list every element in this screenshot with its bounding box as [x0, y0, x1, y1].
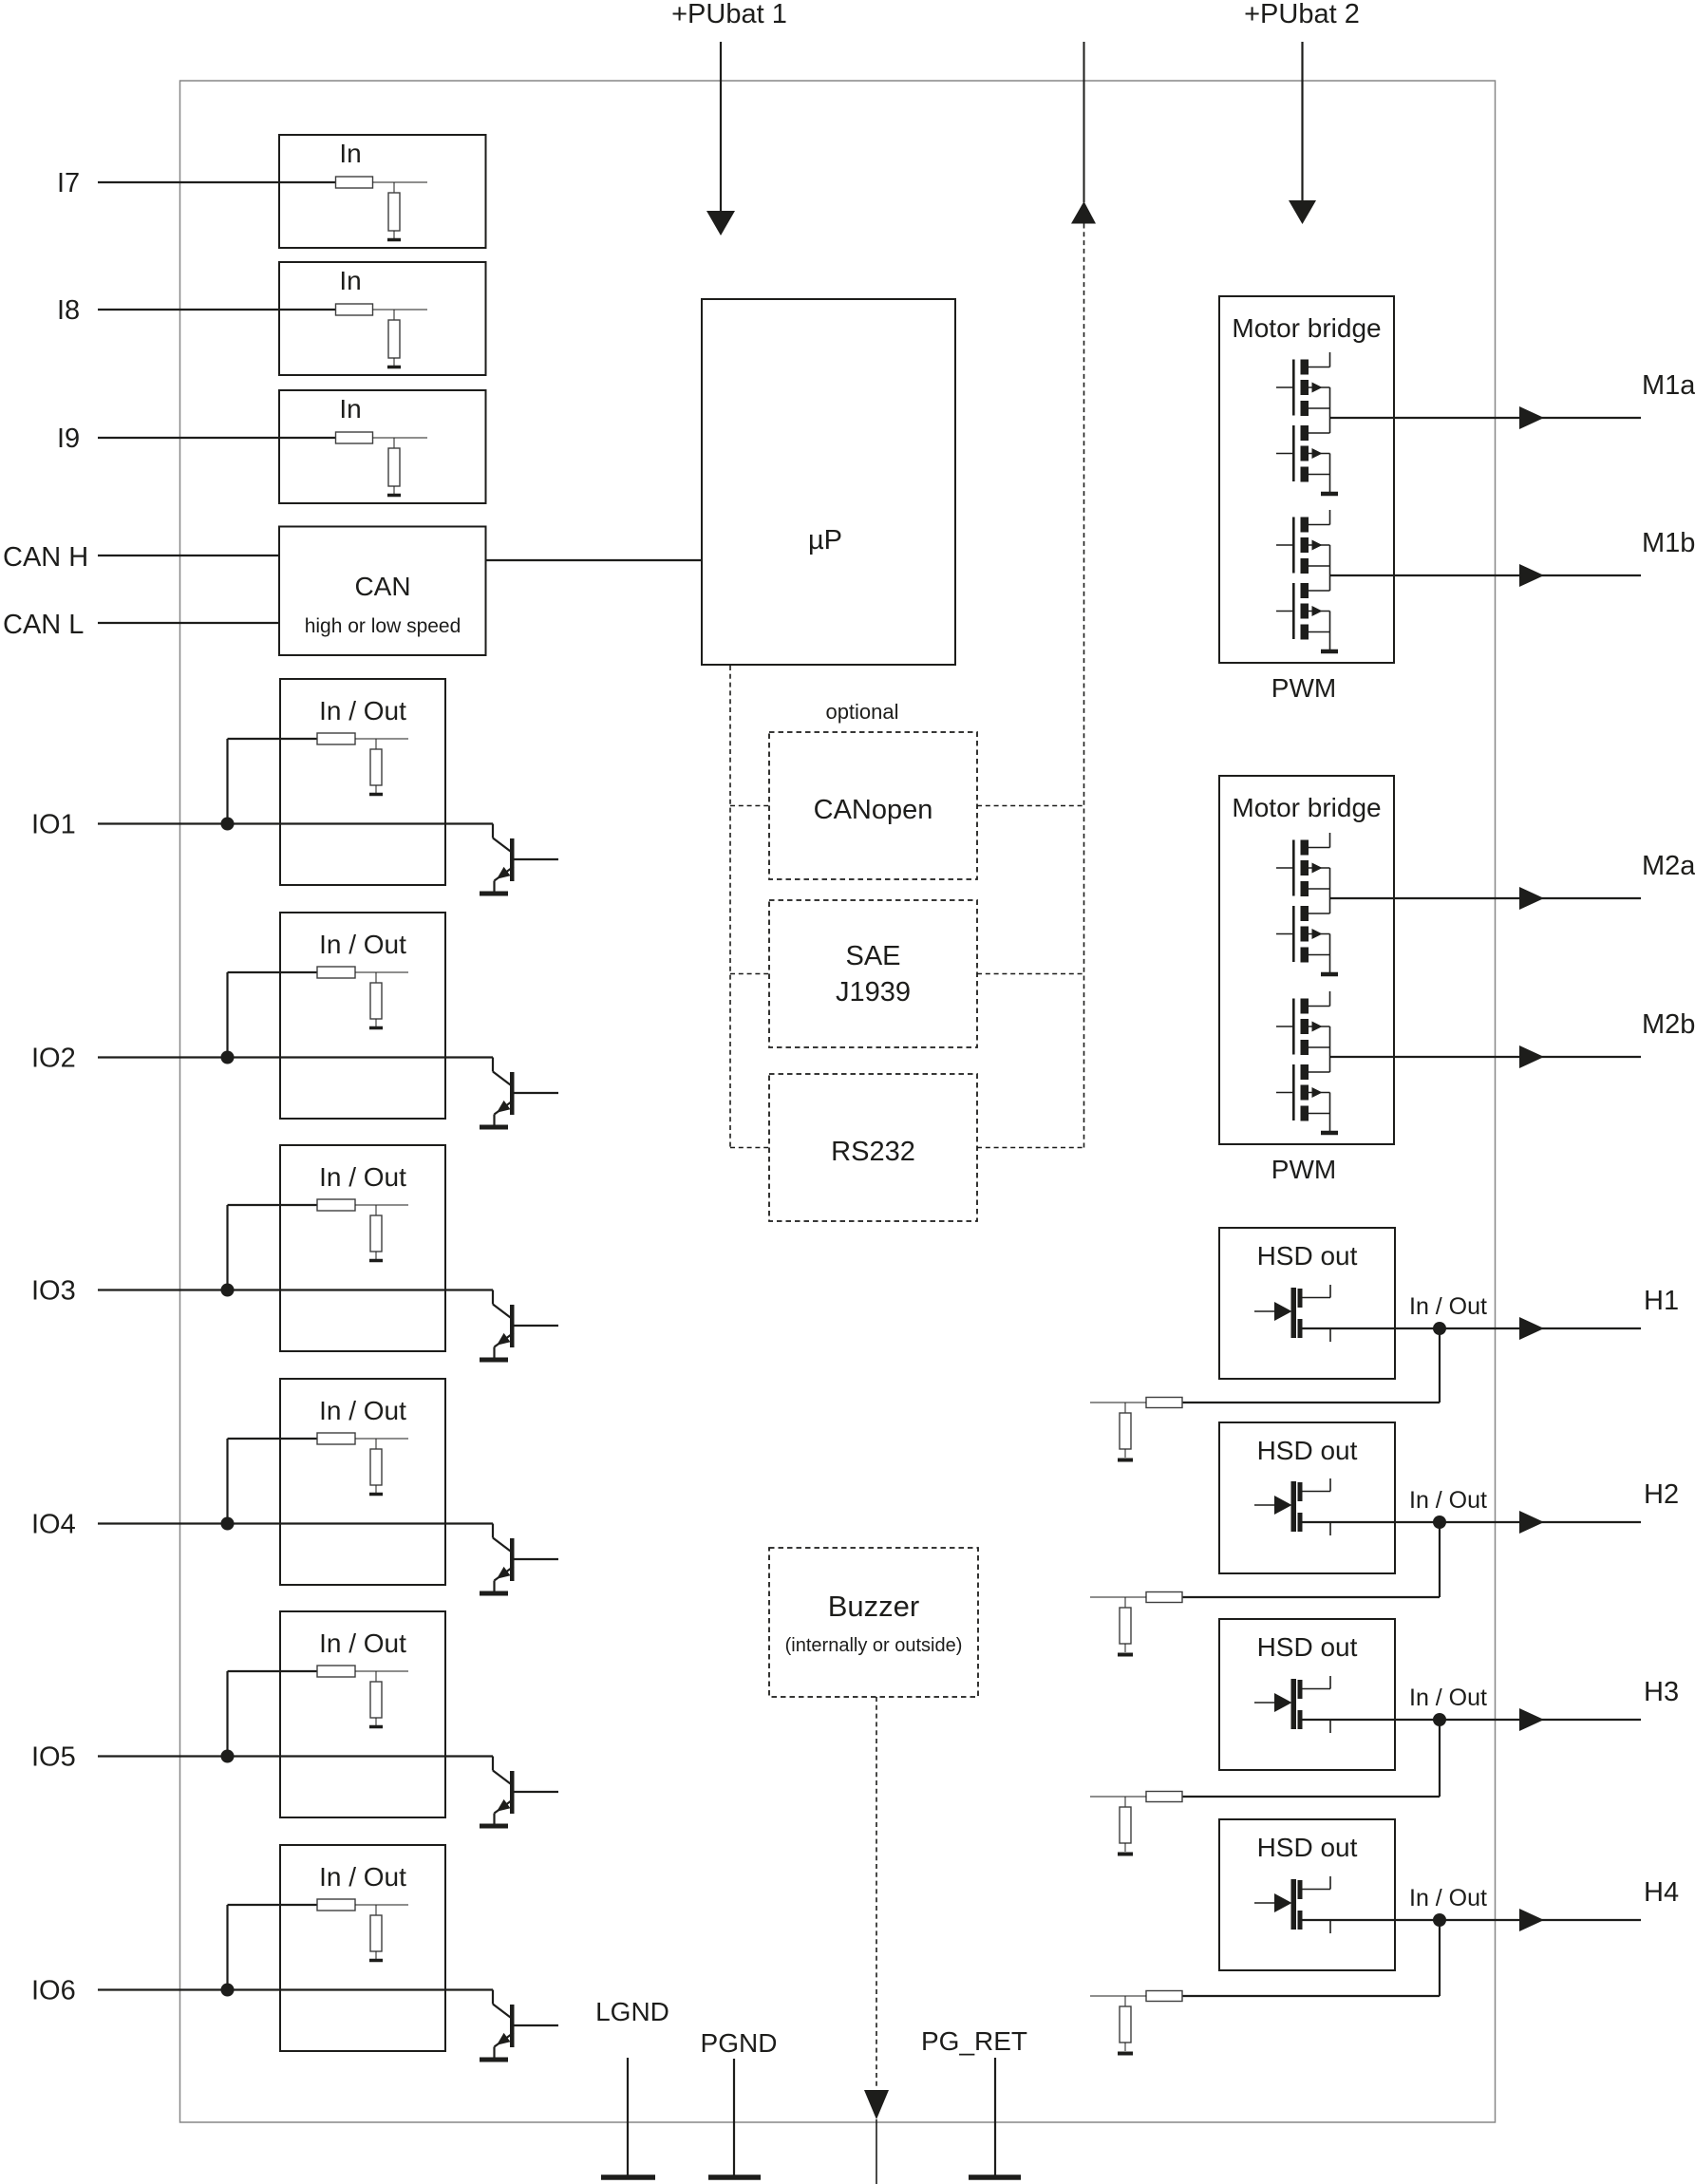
transistor Q1 high-side (N-MOSFET): [1292, 360, 1295, 416]
node M1a phase junction: [1329, 387, 1331, 433]
svg-text:In / Out: In / Out: [319, 930, 406, 959]
block IO6 (In / Out): [280, 1845, 445, 2051]
svg-text:M1b: M1b: [1642, 528, 1695, 558]
wire RS232 right stub (dashed): [977, 1147, 1084, 1149]
ground PGND: [708, 2175, 761, 2180]
svg-text:IO2: IO2: [31, 1044, 76, 1074]
svg-text:CANopen: CANopen: [814, 795, 933, 825]
svg-text:In / Out: In / Out: [319, 1629, 406, 1658]
wire PG_RET: [994, 2058, 996, 2175]
block IO3 (In / Out): [280, 1145, 445, 1351]
resistor pull-down (IO5): [370, 1682, 382, 1718]
wire H3 feedback branch: [1439, 1720, 1441, 1797]
wire CAN H: [98, 555, 279, 556]
resistor pull-down (H3 feedback): [1120, 1807, 1131, 1843]
resistor series (IO3): [317, 1199, 355, 1211]
svg-text:optional: optional: [825, 700, 898, 724]
wire PGND: [733, 2059, 735, 2175]
transistor Q7 high-side (N-MOSFET): [1292, 999, 1295, 1055]
svg-text:IO5: IO5: [31, 1742, 76, 1773]
svg-text:I7: I7: [57, 168, 80, 198]
wire output M1b: [1330, 574, 1642, 576]
block HSD out H3: [1219, 1619, 1395, 1770]
wire output H2: [1303, 1521, 1642, 1523]
resistor series (IO1): [317, 733, 355, 744]
wire IO1 internal node: [355, 738, 408, 740]
wire output M2b: [1330, 1056, 1642, 1058]
ground (H4 feedback): [1118, 2052, 1133, 2056]
wire M2b low-side source to ground: [1329, 1093, 1331, 1132]
node M2a phase junction: [1329, 868, 1331, 913]
arrow output H3: [1519, 1708, 1544, 1731]
ground (IO5 emitter): [480, 1824, 508, 1829]
svg-text:In / Out: In / Out: [1409, 1487, 1487, 1514]
wire M2a low-side source to ground: [1329, 934, 1331, 973]
resistor series (H2 feedback): [1146, 1592, 1182, 1603]
svg-text:IO4: IO4: [31, 1510, 76, 1540]
wire IO6 internal node: [355, 1904, 408, 1906]
ground (IO2 emitter): [480, 1125, 508, 1130]
wire CANopen left stub (dashed): [730, 805, 769, 807]
wire uP to options (dashed): [729, 666, 731, 1148]
ground (M2a low-side): [1321, 972, 1338, 977]
svg-text:In / Out: In / Out: [319, 1862, 406, 1892]
svg-text:In / Out: In / Out: [1409, 1293, 1487, 1320]
node M2b phase junction: [1329, 1026, 1331, 1072]
block CANopen (optional): [769, 732, 977, 879]
arrow option-bus (up): [1071, 201, 1096, 224]
arrow output H2: [1519, 1511, 1544, 1534]
wire +PUbat 1 supply line: [720, 42, 722, 211]
transistor Q12 high-side driver (P-MOSFET): [1254, 1902, 1274, 1904]
svg-text:M2a: M2a: [1642, 851, 1695, 881]
svg-text:M1a: M1a: [1642, 370, 1695, 401]
wire SAE J1939 right stub (dashed): [977, 973, 1084, 975]
block HSD out H2: [1219, 1422, 1395, 1573]
block IO1 (In / Out): [280, 679, 445, 885]
wire I9 internal node: [373, 437, 428, 439]
resistor series (I8 input): [336, 304, 373, 315]
ground (IO5 pull-down): [369, 1725, 383, 1729]
arrow Buzzer return (down): [864, 2090, 889, 2119]
svg-text:In / Out: In / Out: [1409, 1685, 1487, 1711]
arrow output M1b: [1519, 564, 1544, 587]
wire M1a high-side drain to supply: [1329, 352, 1331, 367]
wire IO4 internal node: [355, 1438, 408, 1440]
resistor pull-down (IO4): [370, 1449, 382, 1485]
block HSD out H4: [1219, 1819, 1395, 1970]
ground (IO3 emitter): [480, 1358, 508, 1363]
wire IO3 input: [98, 1289, 493, 1290]
svg-text:J1939: J1939: [836, 977, 911, 1007]
ground (IO3 pull-down): [369, 1259, 383, 1263]
junction IO6: [221, 1984, 235, 1997]
transistor IO5 low-side driver: [492, 1757, 494, 1771]
ground (H1 feedback): [1118, 1459, 1133, 1462]
block input conditioner I8 (In): [279, 262, 486, 375]
resistor pull-down (IO2): [370, 983, 382, 1019]
block IO2 (In / Out): [280, 913, 445, 1119]
svg-text:+PUbat 2: +PUbat 2: [1244, 0, 1360, 29]
wire IO3 branch up: [226, 1205, 228, 1290]
ground (IO2 pull-down): [369, 1026, 383, 1030]
block IO4 (In / Out): [280, 1379, 445, 1585]
block IO5 (In / Out): [280, 1611, 445, 1817]
transistor IO3 low-side driver: [492, 1290, 494, 1305]
transistor Q6 low-side (N-MOSFET): [1292, 906, 1295, 962]
resistor pull-down (I7): [388, 193, 400, 231]
wire H4 feedback branch: [1439, 1920, 1441, 1996]
ground (IO4 emitter): [480, 1591, 508, 1596]
svg-text:CAN L: CAN L: [3, 610, 84, 640]
junction IO5: [221, 1750, 235, 1763]
node M1b phase junction: [1329, 545, 1331, 591]
wire IO3 internal node: [355, 1204, 408, 1206]
junction IO1: [221, 818, 235, 831]
svg-text:CAN H: CAN H: [3, 542, 88, 573]
resistor series (H3 feedback): [1146, 1792, 1182, 1802]
ground (M1a low-side): [1321, 492, 1338, 497]
block input conditioner I9 (In): [279, 390, 486, 503]
block Motor bridge 1: [1219, 296, 1394, 663]
junction IO4: [221, 1517, 235, 1531]
resistor series (IO2): [317, 967, 355, 978]
svg-text:(internally or outside): (internally or outside): [785, 1635, 963, 1656]
resistor series (H4 feedback): [1146, 1991, 1182, 2002]
wire IO5 input: [98, 1755, 493, 1757]
wire M2b high-side drain to supply: [1329, 991, 1331, 1007]
resistor pull-down (H2 feedback): [1120, 1608, 1131, 1644]
arrow output M2b: [1519, 1045, 1544, 1068]
svg-text:high or low speed: high or low speed: [305, 615, 461, 637]
resistor series (IO6): [317, 1899, 355, 1911]
svg-text:H4: H4: [1644, 1877, 1679, 1908]
ground (IO4 pull-down): [369, 1493, 383, 1497]
junction H4: [1433, 1913, 1446, 1927]
arrow output H4: [1519, 1909, 1544, 1931]
wire IO1 input: [98, 822, 493, 824]
block HSD out H1: [1219, 1228, 1395, 1379]
wire input I8: [98, 309, 336, 311]
block CAN transceiver (high or low speed): [279, 527, 486, 656]
transistor Q4 low-side (N-MOSFET): [1292, 583, 1295, 639]
block Motor bridge 2: [1219, 776, 1394, 1144]
svg-text:HSD out: HSD out: [1257, 1632, 1358, 1662]
wire CANopen right stub (dashed): [977, 805, 1084, 807]
transistor IO6 low-side driver: [492, 1990, 494, 2005]
wire H3 feedback stub: [1090, 1796, 1146, 1798]
wire IO6 input: [98, 1988, 493, 1990]
resistor series (IO4): [317, 1433, 355, 1444]
transistor IO4 low-side driver: [492, 1524, 494, 1538]
ground LGND: [601, 2175, 655, 2180]
ground (M2b low-side): [1321, 1131, 1338, 1136]
wire IO2 internal node: [355, 971, 408, 973]
wire option-bus feed (solid, top): [1083, 42, 1085, 202]
svg-text:In: In: [339, 139, 361, 168]
block uP (microprocessor): [702, 299, 955, 665]
svg-text:PWM: PWM: [1271, 673, 1336, 703]
svg-text:µP: µP: [808, 525, 842, 555]
transistor Q9 high-side driver (P-MOSFET): [1254, 1310, 1274, 1312]
wire M1b low-side source to ground: [1329, 612, 1331, 650]
block Buzzer (internally or outside): [769, 1548, 978, 1697]
resistor pull-down (I9): [388, 448, 400, 486]
wire Buzzer to PGND (dashed): [876, 1697, 877, 2089]
svg-text:In / Out: In / Out: [1409, 1885, 1487, 1911]
svg-text:I9: I9: [57, 424, 80, 454]
arrow output M2a: [1519, 887, 1544, 910]
block RS232 (optional): [769, 1074, 977, 1221]
svg-text:PG_RET: PG_RET: [921, 2026, 1027, 2056]
wire H2 feedback stub: [1090, 1596, 1146, 1598]
wire input I9: [98, 437, 336, 439]
resistor pull-down (IO3): [370, 1215, 382, 1252]
ground PG_RET: [969, 2175, 1021, 2180]
wire H4 feedback stub: [1090, 1995, 1146, 1997]
resistor pull-down (H4 feedback): [1120, 2006, 1131, 2043]
wire IO2 input: [98, 1056, 493, 1058]
svg-text:In / Out: In / Out: [319, 1162, 406, 1192]
resistor series (H1 feedback): [1146, 1398, 1182, 1408]
ground (I7 pull-down): [387, 238, 401, 242]
wire output H3: [1303, 1719, 1642, 1721]
wire output M1a: [1330, 417, 1642, 419]
transistor Q10 high-side driver (P-MOSFET): [1254, 1504, 1274, 1506]
svg-text:H3: H3: [1644, 1677, 1679, 1707]
svg-text:HSD out: HSD out: [1257, 1241, 1358, 1271]
svg-text:IO6: IO6: [31, 1976, 76, 2006]
wire IO5 internal node: [355, 1670, 408, 1672]
junction H3: [1433, 1713, 1446, 1726]
transistor Q11 high-side driver (P-MOSFET): [1254, 1702, 1274, 1704]
resistor pull-down (I8): [388, 320, 400, 358]
resistor pull-down (IO6): [370, 1915, 382, 1951]
ground (IO6 emitter): [480, 2058, 508, 2062]
transistor IO1 low-side driver: [492, 824, 494, 838]
wire H2 feedback branch: [1439, 1522, 1441, 1597]
wire SAE J1939 left stub (dashed): [730, 973, 769, 975]
arrow output M1a: [1519, 406, 1544, 429]
junction H2: [1433, 1516, 1446, 1529]
svg-text:H2: H2: [1644, 1479, 1679, 1510]
wire I7 internal node: [373, 181, 428, 183]
wire CAN to uP: [486, 559, 703, 561]
svg-text:Motor bridge: Motor bridge: [1232, 313, 1381, 343]
svg-text:RS232: RS232: [831, 1137, 915, 1167]
wire M2a high-side drain to supply: [1329, 833, 1331, 848]
block SAE J1939 (optional): [769, 900, 977, 1047]
ground (M1b low-side): [1321, 650, 1338, 654]
wire output H1: [1303, 1327, 1642, 1329]
arrow +PUbat 2 (down): [1289, 200, 1316, 224]
svg-text:IO3: IO3: [31, 1276, 76, 1307]
wire RS232 left stub (dashed): [730, 1147, 769, 1149]
wire LGND: [627, 2058, 629, 2175]
wire output M2a: [1330, 897, 1642, 899]
ground (IO1 pull-down): [369, 793, 383, 797]
wire IO6 branch up: [226, 1905, 228, 1990]
arrow +PUbat 1 (down): [706, 211, 735, 235]
ground (IO1 emitter): [480, 892, 508, 896]
ground (I9 pull-down): [387, 494, 401, 498]
transistor Q5 high-side (N-MOSFET): [1292, 840, 1295, 896]
resistor series (I7 input): [336, 177, 373, 188]
svg-text:I8: I8: [57, 295, 80, 326]
wire I8 internal node: [373, 309, 428, 311]
wire Buzzer return tail: [876, 2119, 877, 2184]
wire IO4 input: [98, 1522, 493, 1524]
junction H1: [1433, 1322, 1446, 1335]
wire H1 feedback stub: [1090, 1402, 1146, 1403]
svg-text:PGND: PGND: [701, 2028, 778, 2058]
wire IO5 branch up: [226, 1671, 228, 1757]
resistor series (IO5): [317, 1666, 355, 1677]
wire M1b high-side drain to supply: [1329, 510, 1331, 525]
resistor series (I9 input): [336, 432, 373, 443]
svg-text:IO1: IO1: [31, 810, 76, 840]
wire IO4 branch up: [226, 1439, 228, 1524]
svg-text:Buzzer: Buzzer: [828, 1590, 919, 1623]
svg-text:Motor bridge: Motor bridge: [1232, 793, 1381, 822]
resistor pull-down (H1 feedback): [1120, 1413, 1131, 1449]
svg-text:HSD out: HSD out: [1257, 1833, 1358, 1862]
svg-text:In / Out: In / Out: [319, 696, 406, 725]
transistor IO2 low-side driver: [492, 1058, 494, 1072]
ground (I8 pull-down): [387, 366, 401, 369]
svg-text:In: In: [339, 266, 361, 295]
ground (H3 feedback): [1118, 1853, 1133, 1856]
wire input I7: [98, 181, 336, 183]
svg-text:PWM: PWM: [1271, 1155, 1336, 1184]
wire +PUbat 2 supply line: [1301, 42, 1303, 200]
svg-text:+PUbat 1: +PUbat 1: [671, 0, 787, 29]
svg-text:M2b: M2b: [1642, 1009, 1695, 1040]
junction IO3: [221, 1284, 235, 1297]
wire option-bus (dashed vertical): [1083, 224, 1085, 1148]
svg-text:H1: H1: [1644, 1286, 1679, 1316]
outer frame: [180, 81, 1496, 2122]
svg-text:In / Out: In / Out: [319, 1396, 406, 1425]
transistor Q3 high-side (N-MOSFET): [1292, 518, 1295, 574]
ground (IO6 pull-down): [369, 1959, 383, 1963]
wire M1a low-side source to ground: [1329, 454, 1331, 493]
wire output H4: [1303, 1919, 1642, 1921]
block input conditioner I7 (In): [279, 135, 486, 248]
svg-text:LGND: LGND: [595, 1997, 669, 2026]
resistor pull-down (IO1): [370, 749, 382, 785]
wire H1 feedback branch: [1439, 1328, 1441, 1403]
wire IO1 branch up: [226, 739, 228, 824]
junction IO2: [221, 1051, 235, 1064]
arrow output H1: [1519, 1317, 1544, 1340]
transistor Q2 low-side (N-MOSFET): [1292, 425, 1295, 481]
svg-text:In: In: [339, 394, 361, 424]
wire CAN L: [98, 622, 279, 624]
ground (H2 feedback): [1118, 1653, 1133, 1657]
svg-text:CAN: CAN: [354, 572, 410, 601]
svg-text:HSD out: HSD out: [1257, 1436, 1358, 1465]
transistor Q8 low-side (N-MOSFET): [1292, 1064, 1295, 1120]
svg-text:SAE: SAE: [845, 941, 900, 971]
wire IO2 branch up: [226, 972, 228, 1058]
